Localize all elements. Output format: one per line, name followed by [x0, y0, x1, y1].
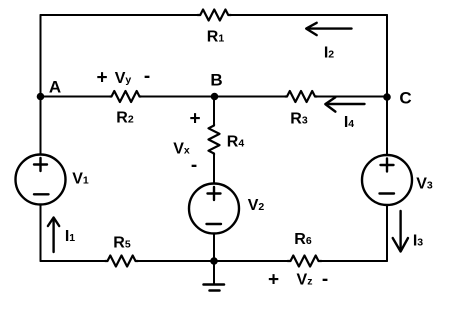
resistor R2 — [110, 91, 141, 127]
wire R2 to node B — [141, 96, 214, 98]
svg-text:R1: R1 — [207, 29, 225, 46]
wire R4 to V2 — [213, 155, 215, 184]
svg-text:V1: V1 — [72, 171, 89, 188]
source V3 — [362, 155, 433, 205]
svg-text:Vx: Vx — [173, 141, 190, 158]
svg-text:A: A — [49, 78, 61, 97]
label Vz polarity — [268, 269, 328, 291]
svg-text:R5: R5 — [113, 235, 131, 252]
svg-text:R6: R6 — [294, 231, 312, 248]
svg-text:R3: R3 — [290, 111, 308, 128]
resistor R4 — [209, 124, 245, 155]
resistor R6 — [288, 231, 322, 267]
ground — [204, 261, 225, 291]
svg-text:+: + — [268, 270, 279, 291]
resistor R3 — [285, 91, 317, 128]
svg-text:+: + — [189, 109, 200, 130]
svg-text:I4: I4 — [344, 114, 354, 131]
wire V3 to bottom wire — [386, 205, 388, 261]
svg-text:I1: I1 — [65, 228, 75, 245]
svg-text:I3: I3 — [413, 233, 423, 250]
source V1 — [16, 155, 89, 205]
svg-text:R4: R4 — [227, 134, 245, 151]
label Vx polarity — [173, 109, 200, 177]
svg-text:B: B — [210, 71, 222, 90]
wire node A to R2 — [41, 96, 111, 98]
svg-text:R2: R2 — [116, 110, 134, 127]
svg-text:Vy: Vy — [115, 70, 132, 87]
svg-text:V3: V3 — [416, 176, 433, 193]
current arrow I2 — [306, 23, 351, 62]
current arrow I4 — [325, 97, 364, 131]
node ground junction — [210, 257, 218, 265]
wire node B down to R4 — [213, 97, 215, 125]
wire V2 to bottom wire — [213, 234, 215, 262]
node C — [383, 89, 411, 108]
wire top-right segment — [231, 14, 387, 16]
node A — [37, 78, 61, 101]
wire R3 to node C — [317, 96, 387, 98]
wire top-left segment — [41, 14, 198, 16]
svg-text:+: + — [96, 68, 107, 89]
wire R5 to ground node — [138, 260, 214, 262]
wire R6 to bottom-right corner — [322, 260, 388, 262]
wire left vertical (top wire to V1) — [40, 15, 42, 155]
svg-text:-: - — [144, 66, 150, 87]
label Vy polarity — [96, 66, 150, 89]
svg-text:-: - — [322, 269, 328, 290]
resistor R1 — [198, 10, 232, 46]
wire bottom-left segment — [41, 260, 106, 262]
current arrow I1 — [48, 218, 75, 253]
source V2 — [189, 184, 264, 234]
svg-text:C: C — [399, 89, 411, 108]
node B — [210, 71, 222, 101]
wire node B to R3 — [215, 96, 286, 98]
current arrow I3 — [393, 211, 424, 252]
wire ground node to R6 — [214, 260, 288, 262]
svg-text:Vz: Vz — [297, 272, 313, 289]
resistor R5 — [105, 235, 138, 267]
svg-text:I2: I2 — [324, 45, 334, 62]
svg-text:-: - — [191, 155, 197, 176]
wire V1 to bottom wire — [40, 205, 42, 262]
svg-text:V2: V2 — [248, 197, 265, 214]
wire right vertical (top wire to V3) — [386, 15, 388, 155]
